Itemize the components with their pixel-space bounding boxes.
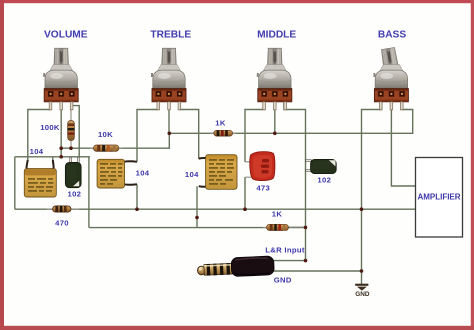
node: middle wiper bbox=[273, 132, 277, 136]
wire: treble pot pin3 jog to C4 top lead bbox=[180, 100, 199, 159]
audio jack plug J1 bbox=[197, 256, 274, 278]
wire: node line y=133.3 through R 1K to bass pin3 bbox=[169, 100, 412, 133]
ground symbol bbox=[355, 284, 368, 291]
capacitor C3 104 (yellow box, treble) bbox=[97, 159, 137, 188]
svg-text:MIDDLE: MIDDLE bbox=[257, 30, 296, 41]
svg-text:GND: GND bbox=[355, 291, 370, 298]
wire: left drop from rail to ground bus bbox=[14, 157, 16, 209]
resistor 10K (horizontal) bbox=[90, 145, 123, 151]
node: C3 bottom on ground bus bbox=[135, 207, 139, 211]
svg-text:GND: GND bbox=[274, 275, 292, 284]
wire: C1 right lead stub bbox=[52, 157, 54, 164]
resistor 470 (on ground bus) bbox=[46, 206, 79, 212]
capacitor C1 104 (yellow box, volume) bbox=[24, 160, 56, 197]
wire: middle pot pin2 (wiper) down to node y=133.3 bbox=[274, 100, 276, 133]
svg-text:1K: 1K bbox=[272, 209, 283, 218]
svg-text:104: 104 bbox=[30, 147, 44, 156]
svg-text:1K: 1K bbox=[215, 118, 226, 127]
capacitor C2 102 (green, volume section) bbox=[65, 157, 81, 188]
wire: L&R input from jack tip to node bbox=[271, 260, 306, 262]
capacitor C5 473 (red box, middle section) bbox=[245, 152, 275, 181]
junction node dots bbox=[59, 132, 363, 273]
wire: C3 bottom lead down to ground bus bbox=[136, 185, 138, 210]
svg-text:VOLUME: VOLUME bbox=[44, 30, 88, 41]
node: lower bus / input drop bbox=[304, 226, 308, 230]
node: L&R input bbox=[304, 259, 308, 263]
svg-text:100K: 100K bbox=[40, 123, 60, 132]
svg-text:AMPLIFIER: AMPLIFIER bbox=[417, 192, 460, 201]
node: R100K bottom bbox=[69, 146, 73, 150]
node: treble wiper bbox=[168, 132, 172, 136]
node: C4 drop on L&R path bbox=[195, 216, 199, 220]
node: jack sleeve ground bbox=[360, 269, 364, 273]
wire: bass pot pin1 jog down to ground symbol bbox=[362, 100, 382, 284]
node: volume wiper / 156.8 rail bbox=[59, 155, 63, 159]
svg-text:L&R Input: L&R Input bbox=[265, 246, 305, 255]
wire: treble pot pin1 jog to C3 top lead bbox=[137, 100, 158, 162]
potentiometer MIDDLE bbox=[257, 48, 292, 110]
svg-text:102: 102 bbox=[68, 189, 82, 198]
svg-text:473: 473 bbox=[256, 184, 270, 193]
wire: middle pot pin3 jog long drop to L&R input node bbox=[284, 100, 306, 261]
wire: C4 bottom lead down to lower bus bbox=[196, 186, 198, 227]
page border frame bbox=[0, 0, 474, 3]
potentiometer TREBLE bbox=[151, 48, 186, 110]
resistor 1K (lower bus) bbox=[263, 224, 306, 230]
svg-text:104: 104 bbox=[185, 170, 199, 179]
node: volume wiper / 148 line bbox=[59, 146, 63, 150]
wire: C5 bottom lead to ground bus bbox=[244, 177, 246, 209]
wire: ground bus y=209.2 to amplifier bbox=[15, 208, 416, 210]
svg-text:BASS: BASS bbox=[378, 30, 407, 41]
potentiometer VOLUME bbox=[43, 48, 78, 110]
wire: treble pot pin2 (wiper) down to node bbox=[168, 100, 170, 133]
wire: volume pot pin3 jog down to node line bbox=[72, 100, 80, 158]
svg-text:102: 102 bbox=[317, 175, 331, 184]
wire: volume pot pin2 (wiper) down bbox=[60, 100, 62, 157]
capacitor C4 104 (yellow box, middle) bbox=[199, 155, 237, 190]
resistor 100K (vertical) bbox=[68, 104, 75, 148]
wire: drop x=88.9 from rail crossing ground bus to lower bus bbox=[88, 157, 90, 228]
wire: volume pot pin1 to C1 left lead bbox=[28, 100, 51, 162]
capacitor C6 102 (green, horizontal, middle section) bbox=[306, 159, 336, 173]
potentiometer BASS bbox=[373, 47, 408, 109]
node: ground drop on ground bus bbox=[360, 207, 364, 211]
wire: middle pot pin1 jog to C5 top lead bbox=[245, 100, 265, 162]
svg-text:470: 470 bbox=[55, 219, 69, 228]
resistor 1K (top, treble-middle node) bbox=[210, 130, 236, 136]
wire: node line y=148 from wiper through R 10K to treble wiper bbox=[61, 133, 169, 148]
wire: bass pot pin2 (wiper) to amplifier input bbox=[391, 100, 415, 186]
svg-text:10K: 10K bbox=[98, 130, 113, 139]
svg-text:TREBLE: TREBLE bbox=[150, 30, 191, 41]
amplifier block U1 bbox=[416, 158, 463, 238]
wire: jack sleeve GND to ground drop bbox=[271, 270, 362, 272]
node: C5 bottom on ground bus bbox=[243, 207, 247, 211]
svg-text:104: 104 bbox=[136, 168, 150, 177]
wire: node line y=156.8 (C1/C2 top rail) bbox=[15, 156, 90, 158]
wire: lower bus y=227.6 through R 1K to L&R node bbox=[89, 227, 306, 229]
